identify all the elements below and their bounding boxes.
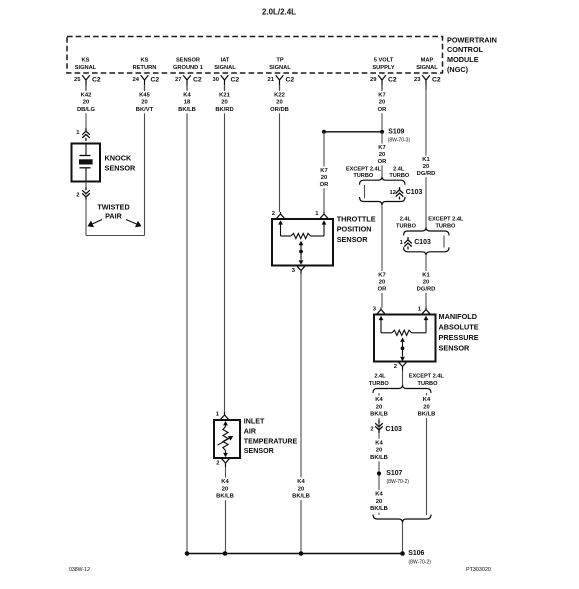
connector C2 pin 21: [276, 75, 284, 90]
svg-text:29: 29: [370, 77, 377, 83]
svg-text:TURBO: TURBO: [396, 224, 417, 230]
svg-text:POSITION: POSITION: [337, 225, 372, 234]
svg-text:(8W-70-2): (8W-70-2): [387, 479, 410, 485]
wire K7 branch to TPS pin 1: [323, 132, 325, 212]
in-line connector pin 1 (knock sensor): [82, 128, 90, 140]
svg-text:TURBO: TURBO: [389, 173, 410, 179]
svg-text:SIGNAL: SIGNAL: [75, 65, 97, 71]
svg-text:20: 20: [376, 448, 382, 454]
svg-text:C2: C2: [92, 76, 101, 83]
brace merge bottom (5V): [360, 197, 406, 205]
svg-text:BK/LB: BK/LB: [216, 494, 234, 500]
svg-text:(8W-70-2): (8W-70-2): [409, 560, 432, 566]
junction sensor ground: [185, 551, 190, 556]
wire IAT signal K21: [224, 85, 226, 412]
svg-text:K4: K4: [375, 397, 383, 403]
in-line connector pin 2 (knock sensor): [85, 182, 87, 189]
svg-text:C103: C103: [385, 426, 402, 433]
wire label K7 20 OR (to MAP): [369, 271, 395, 293]
svg-text:RETURN: RETURN: [133, 65, 157, 71]
svg-text:20: 20: [423, 164, 429, 170]
brace split top (5V): [360, 177, 406, 185]
svg-text:23: 23: [414, 77, 421, 83]
svg-text:K45: K45: [139, 93, 150, 99]
svg-text:5 VOLT: 5 VOLT: [374, 58, 394, 64]
svg-text:BK/LB: BK/LB: [370, 506, 388, 512]
ground bus wire: [187, 553, 403, 555]
svg-text:EXCEPT 2.4L: EXCEPT 2.4L: [409, 374, 445, 380]
junction IAT ground: [223, 551, 228, 556]
wire label K22 20 OR/DB: [267, 91, 293, 113]
branch wire except 2.4L turbo ground: [426, 393, 428, 515]
branch wire except 2.4L turbo: [364, 185, 366, 198]
junction TPS ground: [299, 551, 304, 556]
wire label K4 18 BK/LB: [174, 91, 200, 113]
svg-text:BK/LB: BK/LB: [418, 412, 436, 418]
connector C103 pin 2: [375, 420, 383, 432]
svg-text:20: 20: [379, 280, 385, 286]
svg-text:C2: C2: [231, 76, 240, 83]
svg-text:BK/VT: BK/VT: [136, 107, 154, 113]
wire label K4 20 BK/LB (right branch): [414, 396, 440, 419]
svg-text:C103: C103: [414, 239, 431, 246]
svg-text:K22: K22: [274, 93, 285, 99]
svg-text:TEMPERATURE: TEMPERATURE: [244, 437, 298, 445]
splice S109: [324, 131, 382, 133]
wire label K45 20 BK/VT: [132, 91, 158, 113]
brace merge bottom (MAP): [404, 247, 450, 255]
brace split top (MAP): [404, 228, 450, 236]
wire to S106: [402, 523, 404, 554]
svg-text:KS: KS: [82, 58, 90, 64]
inlet air temperature sensor box: [214, 420, 240, 458]
connector C2 pin 27: [183, 75, 191, 90]
svg-text:MANIFOLD: MANIFOLD: [439, 312, 478, 321]
IAT thermistor: [223, 421, 228, 425]
svg-text:20: 20: [83, 100, 89, 106]
svg-text:OR: OR: [378, 287, 388, 293]
svg-text:PT303020: PT303020: [466, 567, 491, 573]
wire label K4 20 BK/LB (below C103): [366, 439, 392, 462]
svg-text:C2: C2: [193, 76, 202, 83]
wire label K4 20 BK/LB (TPS ground): [288, 478, 314, 501]
wire label K4 20 BK/LB (below S107): [366, 490, 392, 513]
svg-text:SENSOR: SENSOR: [244, 447, 274, 455]
svg-text:AIR: AIR: [244, 427, 256, 435]
twisted pair return wire: [85, 200, 87, 236]
svg-text:TP: TP: [276, 58, 283, 64]
svg-text:2: 2: [216, 461, 219, 467]
svg-text:OR: OR: [378, 107, 388, 113]
svg-text:KS: KS: [141, 58, 149, 64]
svg-text:2: 2: [76, 193, 79, 199]
branch wire 2.4L turbo ground: [378, 393, 380, 515]
brace split top (ground): [373, 385, 431, 393]
knock sensor piezo element: [85, 144, 87, 156]
wire MAP signal K1: [425, 85, 427, 229]
IAT pin 1: [221, 412, 229, 419]
svg-text:OR/DB: OR/DB: [270, 107, 289, 113]
svg-text:PAIR: PAIR: [105, 212, 122, 221]
svg-text:(NGC): (NGC): [447, 65, 469, 74]
svg-text:DB/LG: DB/LG: [77, 107, 96, 113]
svg-text:2: 2: [272, 211, 275, 217]
svg-text:BK/LB: BK/LB: [178, 107, 196, 113]
wire label K21 20 BK/RD: [212, 91, 238, 113]
svg-text:TURBO: TURBO: [435, 224, 456, 230]
svg-text:SENSOR: SENSOR: [439, 343, 471, 352]
svg-text:THROTTLE: THROTTLE: [337, 214, 376, 223]
MAP wiper: [400, 338, 405, 342]
svg-text:IAT: IAT: [221, 58, 230, 64]
svg-text:K21: K21: [219, 93, 230, 99]
svg-text:20: 20: [141, 100, 147, 106]
throttle position sensor box: [272, 219, 333, 266]
svg-text:K4: K4: [183, 93, 191, 99]
svg-text:27: 27: [175, 77, 181, 83]
svg-text:SENSOR: SENSOR: [105, 164, 137, 173]
connector C2 pin 24: [141, 75, 149, 90]
svg-text:K4: K4: [221, 479, 229, 485]
wire sensor ground K4: [186, 85, 188, 554]
svg-text:20: 20: [276, 100, 282, 106]
connector C2 pin 30: [221, 75, 229, 90]
IAT pin 2: [222, 459, 230, 467]
wire MAP pin 2 down: [402, 371, 404, 386]
connector C2 pin 23: [422, 75, 430, 90]
svg-text:K7: K7: [378, 145, 385, 151]
svg-text:20: 20: [423, 404, 429, 410]
svg-text:038W-12: 038W-12: [69, 567, 90, 573]
wire TPS pin 3 to ground bus: [300, 274, 302, 554]
svg-text:TURBO: TURBO: [369, 381, 390, 387]
svg-text:2.4L: 2.4L: [400, 217, 412, 223]
svg-text:SIGNAL: SIGNAL: [214, 65, 236, 71]
svg-text:12: 12: [390, 190, 396, 196]
twisted pair arrow right: [126, 220, 137, 225]
svg-text:(8W-70-3): (8W-70-3): [388, 138, 411, 144]
wire label K1 20 DG/RD (upper): [413, 156, 439, 178]
wire K7 main below S109: [381, 132, 383, 178]
svg-text:C103: C103: [406, 189, 423, 196]
TPS pin 2: [277, 212, 285, 218]
MAP pin 3: [377, 308, 385, 314]
svg-text:20: 20: [298, 486, 304, 492]
svg-text:TURBO: TURBO: [418, 381, 439, 387]
svg-text:MODULE: MODULE: [447, 55, 479, 64]
svg-text:TURBO: TURBO: [353, 173, 374, 179]
svg-text:BK/RD: BK/RD: [215, 107, 233, 113]
svg-text:SENSOR: SENSOR: [176, 58, 200, 64]
svg-text:C2: C2: [388, 76, 397, 83]
splice S107: [377, 471, 381, 475]
svg-text:21: 21: [268, 77, 275, 83]
svg-text:EXCEPT 2.4L: EXCEPT 2.4L: [346, 166, 382, 172]
svg-text:18: 18: [184, 100, 191, 106]
svg-text:K4: K4: [423, 397, 431, 403]
svg-text:EXCEPT 2.4L: EXCEPT 2.4L: [428, 217, 464, 223]
wire label K7 20 OR (below S109): [369, 144, 395, 166]
svg-text:20: 20: [376, 404, 382, 410]
wire label K7 20 OR (branch): [311, 167, 337, 189]
svg-text:BK/LB: BK/LB: [370, 412, 388, 418]
wire label K4 20 BK/LB (upper left): [366, 396, 392, 419]
svg-text:CONTROL: CONTROL: [447, 45, 484, 54]
wire label K42 20 DB/LG: [73, 91, 99, 113]
svg-text:2: 2: [394, 364, 397, 370]
svg-text:SIGNAL: SIGNAL: [416, 65, 438, 71]
connector C103 pin 12: [396, 187, 404, 199]
svg-text:ABSOLUTE: ABSOLUTE: [439, 323, 479, 332]
wire IAT pin 2 to ground bus: [225, 467, 227, 554]
svg-text:K7: K7: [320, 168, 327, 174]
svg-text:K4: K4: [375, 440, 383, 446]
svg-text:K7: K7: [378, 93, 385, 99]
svg-text:C2: C2: [286, 76, 295, 83]
TPS wiper: [299, 241, 304, 245]
svg-text:25: 25: [74, 77, 81, 83]
svg-text:K1: K1: [422, 157, 430, 163]
svg-text:K7: K7: [378, 273, 385, 279]
svg-text:S109: S109: [388, 128, 404, 135]
svg-text:KNOCK: KNOCK: [105, 153, 132, 162]
wire label K7 20 OR: [369, 91, 395, 113]
svg-text:DG/RD: DG/RD: [417, 287, 436, 293]
svg-text:20: 20: [379, 100, 385, 106]
connector C103 pin 1: [404, 237, 412, 249]
svg-text:S107: S107: [386, 470, 402, 477]
connector C2 pin 25: [82, 75, 90, 90]
svg-text:2.4L: 2.4L: [393, 166, 405, 172]
svg-text:2.0L/2.4L: 2.0L/2.4L: [262, 6, 296, 16]
svg-text:BK/LB: BK/LB: [370, 455, 388, 461]
svg-text:30: 30: [213, 77, 219, 83]
wire K1 to MAP pin 1: [425, 255, 427, 307]
svg-text:20: 20: [321, 175, 327, 181]
splice S106: [400, 551, 405, 556]
branch wire except 2.4L turbo (MAP): [443, 236, 445, 248]
brace merge bottom (ground): [373, 515, 431, 523]
svg-text:S106: S106: [408, 550, 424, 557]
svg-text:BK/LB: BK/LB: [292, 494, 310, 500]
svg-text:INLET: INLET: [244, 418, 265, 426]
svg-text:K4: K4: [297, 479, 305, 485]
svg-text:2.4L: 2.4L: [374, 374, 386, 380]
svg-text:C2: C2: [151, 76, 160, 83]
svg-text:20: 20: [221, 100, 227, 106]
svg-text:K42: K42: [81, 93, 92, 99]
TPS potentiometer: [278, 220, 283, 224]
svg-text:POWERTRAIN: POWERTRAIN: [447, 35, 497, 44]
svg-text:C2: C2: [432, 76, 441, 83]
svg-text:DG/RD: DG/RD: [417, 171, 436, 177]
svg-text:20: 20: [376, 499, 382, 505]
manifold absolute pressure sensor box: [374, 315, 436, 362]
svg-text:SUPPLY: SUPPLY: [372, 65, 394, 71]
TPS pin 3: [297, 266, 305, 274]
svg-text:OR: OR: [378, 159, 388, 165]
svg-text:MAP: MAP: [421, 58, 434, 64]
wire KS signal K42: [85, 85, 87, 130]
svg-text:20: 20: [222, 486, 228, 492]
wire K7 to MAP pin 3: [381, 205, 383, 308]
wire label K1 20 DG/RD (lower): [413, 271, 439, 293]
MAP pin 1: [422, 308, 430, 314]
svg-text:TWISTED: TWISTED: [97, 202, 129, 211]
connector C2 pin 29: [378, 75, 386, 90]
wire KS return K45: [144, 85, 146, 236]
svg-text:OR: OR: [320, 182, 330, 188]
svg-text:GROUND 1: GROUND 1: [173, 65, 203, 71]
svg-text:20: 20: [379, 152, 385, 158]
svg-text:24: 24: [133, 77, 140, 83]
svg-text:PRESSURE: PRESSURE: [439, 333, 479, 342]
svg-text:K1: K1: [422, 273, 430, 279]
svg-text:K4: K4: [375, 492, 383, 498]
svg-text:SIGNAL: SIGNAL: [269, 65, 291, 71]
PCM dashed box: [67, 37, 443, 74]
twisted pair arrow left: [93, 220, 103, 224]
svg-text:SENSOR: SENSOR: [337, 235, 369, 244]
MAP potentiometer: [379, 316, 384, 320]
TPS pin 1: [320, 212, 328, 218]
MAP pin 2: [399, 362, 407, 370]
svg-text:20: 20: [423, 280, 429, 286]
knock sensor box: [72, 144, 101, 182]
wire 5 volt supply K7: [381, 85, 383, 130]
wire TP signal K22: [279, 85, 281, 212]
svg-text:2: 2: [370, 427, 373, 433]
wire label K4 20 BK/LB (IAT ground): [212, 478, 238, 501]
